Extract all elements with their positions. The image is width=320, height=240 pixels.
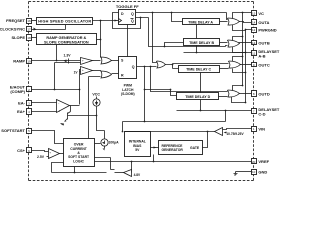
wire error amp output node to comparator2 (80, 70, 81, 105)
svg-text:TIME DELAY D: TIME DELAY D (185, 95, 210, 99)
svg-text:19: 19 (27, 60, 31, 64)
svg-text:SLOPE COMPENSATION: SLOPE COMPENSATION (44, 40, 89, 44)
wire Q down to phase gate C (153, 13, 157, 63)
svg-text:GND: GND (258, 169, 267, 174)
wire OR gate R to latch (112, 73, 119, 75)
wire error amp output (70, 105, 80, 107)
pin VC (15) (252, 11, 265, 16)
pin FREQSET (16) (6, 18, 31, 23)
svg-text:5V: 5V (135, 148, 140, 152)
pin EA- (3) (18, 101, 31, 106)
pin OUTB (13) (252, 40, 270, 45)
svg-text:12: 12 (252, 28, 256, 32)
svg-text:17: 17 (27, 28, 31, 32)
svg-text:FREQSET: FREQSET (6, 18, 25, 23)
wire latch Q to phase gate C (137, 66, 157, 68)
pin OUTC (9) (252, 62, 270, 67)
svg-text:14: 14 (252, 20, 256, 24)
svg-text:16: 16 (27, 19, 31, 23)
OR gate S (101, 57, 112, 65)
wire gate C driver VC wrap (233, 56, 244, 62)
wire gate D driver PWRGND wrap (232, 97, 247, 104)
svg-text:18: 18 (27, 36, 31, 40)
VCC current source (92, 92, 100, 106)
block over current soft start logic (64, 139, 95, 167)
svg-text:-: - (82, 71, 83, 75)
svg-text:PWRGND: PWRGND (258, 28, 276, 33)
block ramp generator and slope compensation (37, 34, 97, 45)
wire E/AOUT node (32, 63, 81, 91)
pin CLOCKSYNC (17) (0, 27, 32, 32)
wire FF bottom to latch top (127, 25, 129, 57)
svg-text:GATE: GATE (190, 146, 200, 150)
wire gate A driver VC wrap (233, 12, 244, 19)
svg-text:OUTC: OUTC (258, 62, 269, 67)
svg-text:GENERATOR: GENERATOR (162, 148, 184, 152)
pin SOFTSTART (5) (1, 128, 31, 133)
toggle flip-flop U-FF (116, 4, 139, 25)
wire OR gate S to latch (112, 60, 119, 62)
UVLO comparator 10.75/9.25V (215, 128, 245, 136)
pin OUTD (8) (252, 91, 270, 97)
offset source 1.3V on RAMP line (64, 54, 72, 64)
svg-text:EA-: EA- (18, 101, 26, 106)
wire gate C to OUTC (240, 64, 252, 66)
gate VREF good AND (111, 170, 124, 173)
wire VCC source down to 100uA source (96, 107, 105, 139)
svg-text:C-D: C-D (258, 111, 265, 116)
pin E/AOUT COMP (2) (10, 85, 32, 94)
wire oscillator clock to toggle FF (93, 20, 119, 22)
wire gate B driver VC wrap (233, 36, 244, 41)
VC rail (243, 13, 252, 86)
pin DELAYSET A-B (11) (252, 49, 280, 58)
pin VREF (20) (252, 159, 270, 165)
svg-text:SLOPE: SLOPE (11, 35, 25, 40)
svg-text:-: - (58, 102, 59, 106)
block time delay C (179, 66, 220, 73)
wire time delay C output to gate C (220, 68, 229, 70)
svg-text:15: 15 (252, 11, 256, 15)
wire bias row link (122, 111, 226, 133)
svg-text:VC: VC (258, 11, 264, 16)
svg-text:100µA: 100µA (109, 140, 120, 144)
svg-text:10.75/9.25V: 10.75/9.25V (226, 132, 244, 136)
error amplifier E/A (57, 100, 70, 114)
pin DELAYSET C-D (7) (252, 107, 280, 116)
OR gate R (101, 71, 112, 79)
block time delay D (177, 93, 219, 100)
wire FREQSET to oscillator (32, 20, 37, 22)
PWM latch box (119, 57, 137, 97)
svg-text:Q: Q (131, 19, 134, 23)
pin OUTA (14) (252, 20, 270, 25)
comparator 4.8V VREF good (124, 170, 142, 178)
wire time delay A output (220, 21, 228, 23)
svg-text:-: - (82, 61, 83, 65)
wire VREF tap to 4.8V comparator (131, 162, 133, 173)
svg-text:VCC: VCC (92, 92, 100, 96)
svg-text:RAMP GENERATOR &: RAMP GENERATOR & (46, 36, 86, 40)
wire direct line to gate D upper input (151, 67, 228, 92)
current sense comparator 2.5V (37, 149, 60, 160)
wire internal bias to reference generator (151, 147, 159, 149)
wire CS+ to current comparator (32, 151, 49, 152)
wire gate C driver PWRGND wrap (233, 69, 247, 74)
svg-text:TIME DELAY B: TIME DELAY B (189, 41, 214, 45)
block reference generator (159, 141, 203, 155)
svg-text:10: 10 (252, 170, 256, 174)
svg-text:CLOCKSYNC: CLOCKSYNC (0, 27, 25, 32)
wire SOFTSTART to logic box (32, 131, 64, 144)
wire Qbar to time delay B (165, 43, 184, 47)
svg-text:OUTA: OUTA (258, 20, 269, 25)
svg-text:11: 11 (252, 51, 255, 55)
comparator 2 (1V) (74, 67, 93, 75)
svg-text:OUTD: OUTD (258, 91, 269, 96)
IC dashed border (29, 2, 254, 181)
wire latch Q to time delay D (145, 89, 177, 96)
block time delay B (184, 39, 220, 46)
wire EA- to error amp (32, 102, 57, 104)
wire SLOPE to ramp generator (32, 37, 37, 39)
wire OR gate R lower input from logic (89, 77, 101, 139)
svg-text:4.8V: 4.8V (134, 173, 141, 177)
block internal bias (125, 132, 151, 157)
output gate D (228, 90, 240, 97)
output gate B (228, 40, 240, 47)
pin VIN (1) (252, 126, 266, 131)
block high speed oscillator (37, 18, 93, 25)
pin EA+ (4) (17, 109, 31, 115)
VREF rail (95, 155, 252, 163)
wire RAMP to PWM comparator (32, 60, 81, 62)
svg-text:13: 13 (252, 41, 256, 45)
wire ramp generator output to RAMP line (56, 45, 58, 61)
svg-text:TOGGLE FF: TOGGLE FF (116, 4, 139, 9)
wire CS comparator to logic box (60, 153, 64, 155)
svg-text:1.3V: 1.3V (64, 54, 72, 58)
wire time delay B output (220, 42, 228, 44)
wire EA+ to error amp (32, 111, 59, 113)
svg-text:-: - (49, 155, 50, 159)
svg-text:RAMP: RAMP (13, 59, 25, 64)
wire delay set A-B chain (184, 25, 252, 54)
wire VIN to UVLO comparator (223, 129, 252, 130)
PWM comparator 1 (81, 58, 93, 66)
svg-text:OUTB: OUTB (258, 40, 269, 45)
wire toggle FF D feedback (113, 13, 141, 29)
wire gate A to OUTA (239, 22, 252, 23)
svg-text:TIME DELAY C: TIME DELAY C (186, 68, 211, 72)
svg-text:VREF: VREF (258, 159, 269, 164)
svg-text:VIN: VIN (258, 126, 265, 131)
output gate A (228, 18, 240, 25)
svg-text:D: D (121, 12, 124, 16)
transistor Q1 softstart clamp (61, 106, 97, 126)
wire toggle FF Qbar to output gate B (141, 18, 228, 68)
wire gate D driver VC wrap (233, 85, 244, 91)
svg-text:Q: Q (131, 12, 134, 16)
pin RAMP (19) (13, 59, 31, 64)
wire delay set C-D chain (177, 73, 252, 112)
PWRGND rail (246, 30, 252, 103)
svg-text:TIME DELAY A: TIME DELAY A (188, 20, 213, 24)
svg-text:20: 20 (252, 160, 256, 164)
svg-text:HIGH SPEED OSCILLATOR: HIGH SPEED OSCILLATOR (38, 19, 91, 23)
svg-text:A-B: A-B (258, 53, 265, 58)
svg-text:+: + (58, 110, 60, 114)
wire GND and ground symbol (234, 172, 252, 176)
svg-text:SOFTSTART: SOFTSTART (1, 128, 25, 133)
pin CS+ (6) (17, 148, 31, 153)
wire gate D to OUTD (239, 93, 252, 95)
wire clock to ramp generator and PWM OR gate (96, 21, 102, 58)
output gate C (229, 61, 241, 68)
wire gate B driver PWRGND wrap (233, 47, 247, 54)
wire logic box to 100uA source (95, 143, 101, 145)
svg-text:2.5V: 2.5V (37, 155, 45, 159)
svg-text:(COMP): (COMP) (10, 89, 25, 94)
wire CLOCKSYNC to oscillator bottom (32, 25, 66, 31)
svg-text:LOGIC: LOGIC (73, 159, 84, 163)
pin GND (10) (252, 169, 268, 174)
pin SLOPE (18) (11, 35, 31, 41)
svg-text:+: + (49, 150, 51, 154)
wire latch Q down to bias row (144, 67, 146, 123)
svg-text:R: R (121, 73, 124, 77)
pin PWRGND (12) (252, 28, 277, 33)
wire gate A driver PWRGND wrap (233, 25, 247, 31)
phase gate C (XOR) (157, 61, 166, 68)
wire toggle FF Q to output gate A (136, 12, 228, 20)
wire time delay D output to gate D (219, 96, 228, 98)
wire UVLO output to reference gate and bias (125, 131, 215, 148)
svg-text:EA+: EA+ (17, 109, 26, 114)
wire Q to time delay A (172, 13, 183, 22)
current source 100uA (101, 139, 119, 151)
svg-text:(S-DOM): (S-DOM) (121, 92, 135, 96)
wire gate output to logic box (52, 163, 107, 174)
wire gate B to OUTB (239, 42, 252, 44)
wire comparator1 to OR gate S (93, 60, 101, 62)
block time delay A (183, 19, 220, 25)
svg-text:Q: Q (132, 65, 135, 69)
wire comparator2 to OR gate R (93, 70, 101, 72)
svg-text:CS+: CS+ (17, 148, 26, 153)
wire logic box to vref-good gate (95, 158, 111, 170)
wire phase gate C output (165, 64, 229, 69)
